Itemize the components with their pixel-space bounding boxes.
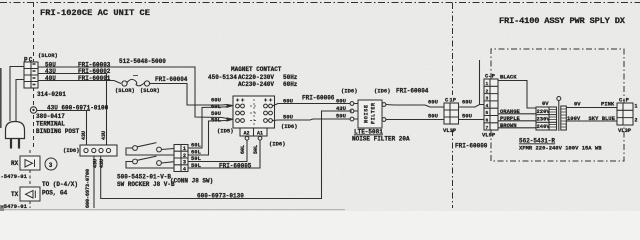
wire 60U filter to VL3P [386,105,444,108]
coil terminals A2 A1 [240,128,267,140]
transformer shield terminal [557,97,561,132]
svg-text:2: 2 [183,153,186,159]
svg-text:PINK: PINK [601,101,615,108]
wire 60U VL3P to CP [459,60,485,107]
svg-text:(SLOR): (SLOR) [140,87,160,94]
svg-text:FRI-60000: FRI-60000 [455,143,488,150]
noise filter LTE-5081 [354,100,386,128]
svg-text:NOISE: NOISE [364,105,370,123]
svg-text:50L: 50L [211,117,222,124]
svg-text:(ID6): (ID6) [281,123,298,130]
node 43U filter pin [350,109,354,113]
svg-text:XFMR 220-240V 100V 15A WB: XFMR 220-240V 100V 15A WB [519,145,602,152]
svg-text:60L: 60L [191,142,202,149]
svg-text:-5479-01: -5479-01 [1,203,28,210]
wire 60L pin2 up to contact [188,121,227,156]
svg-text:43U: 43U [99,159,105,168]
scan artifact bottom left [0,205,4,211]
switch rocker pole B [126,156,174,168]
connector CONN J8 SW [174,145,188,172]
svg-text:FRI-60005: FRI-60005 [219,163,252,170]
transformer secondary winding [561,106,567,130]
fuse link FRI-60004 [122,76,150,87]
svg-text:(SLOR): (SLOR) [115,87,135,94]
svg-text:50U: 50U [428,113,438,120]
svg-text:FRI-60004: FRI-60004 [396,88,429,95]
svg-text:AC220-230V: AC220-230V [238,74,274,81]
svg-text:43U 600-6971-0100: 43U 600-6971-0100 [47,105,109,112]
svg-text:4: 4 [486,103,489,109]
svg-text:562-5431-R: 562-5431-R [519,138,555,145]
connector P-C body [24,62,38,88]
svg-text:PURPLE: PURPLE [500,115,521,122]
svg-text:(CONN J8 SW): (CONN J8 SW) [170,178,213,185]
svg-text:7: 7 [486,125,489,131]
svg-text:(ID6): (ID6) [63,147,80,154]
svg-text:(ID6): (ID6) [341,88,358,95]
svg-text:3: 3 [183,160,186,166]
svg-text:FRI-60004: FRI-60004 [155,76,188,83]
svg-text:TERMINAL: TERMINAL [36,121,65,128]
svg-text:RX: RX [11,160,19,167]
svg-text:TO (D-4/X): TO (D-4/X) [42,181,78,188]
wire 43U row2 [38,74,107,146]
wire BLACK [498,81,536,109]
svg-text:512-5048-5000: 512-5048-5000 [119,58,166,65]
svg-text:(ID6): (ID6) [269,141,286,148]
wire PURPLE 230V [498,120,536,122]
svg-text:ORANGE: ORANGE [500,108,521,115]
svg-text:43U: 43U [45,68,56,75]
border top dash-dot [0,2,640,4]
svg-text:VL9P: VL9P [482,132,496,139]
svg-text:VL3P: VL3P [618,127,632,134]
svg-text:FILTER: FILTER [371,103,377,124]
svg-text:43U: 43U [336,105,346,112]
svg-text:BINDING POST: BINDING POST [36,128,80,135]
node TX opto [20,187,40,201]
svg-text:P C: P C [24,57,33,64]
svg-text:1: 1 [486,81,489,87]
svg-text:(ID5): (ID5) [217,128,234,135]
wire 43U down-left [93,156,95,208]
connector ID6 binding post [80,145,117,156]
wire terminal to 43U drop [37,111,90,146]
connector C-P 7pin VL9P [484,79,498,130]
svg-text:0V: 0V [542,100,549,107]
svg-text:C 1P: C 1P [445,97,457,104]
wire 0V PINK [566,107,617,109]
svg-text:AC230-240V: AC230-240V [238,81,274,88]
wire plug cord L [10,67,24,122]
wire after fuse to contact 60U [150,84,227,106]
svg-text:43U: 43U [93,159,99,168]
pin numbers C-P [486,81,489,131]
svg-text:SKY BLUE: SKY BLUE [589,115,616,122]
svg-text:60L: 60L [240,145,246,154]
svg-text:FRI-1020CE AC UNIT CE: FRI-1020CE AC UNIT CE [40,8,150,18]
svg-text:5: 5 [486,110,489,116]
svg-text:BROWN: BROWN [500,122,517,129]
svg-text:C-P: C-P [485,73,496,80]
transformer primary winding [536,107,557,130]
wire 60U row3 to fuse [38,81,121,84]
svg-text:1: 1 [635,104,638,110]
wire 100V SKY BLUE [566,120,617,122]
node RX opto [20,150,40,208]
svg-text:C-P: C-P [619,97,630,104]
crimp lugs left pair 2 [227,118,233,121]
svg-text:2: 2 [486,88,489,94]
wire 50U row1 [38,67,227,119]
svg-text:600-6973-0130: 600-6973-0130 [197,193,244,200]
svg-text:60Hz: 60Hz [283,81,298,88]
svg-text:POS, G4: POS, G4 [42,190,68,197]
svg-text:SW ROCKER J8 V-B: SW ROCKER J8 V-B [117,181,175,188]
connector C-P right VL3P [617,103,633,125]
svg-text:(ID6): (ID6) [374,88,391,95]
svg-text:50L: 50L [191,162,202,169]
pin numbers J8 [183,146,186,172]
connector C1P VL3P [444,103,459,124]
svg-text:230V: 230V [537,116,551,123]
svg-text:50L: 50L [253,145,259,154]
svg-text:60U: 60U [336,98,346,105]
svg-text:43U: 43U [81,131,87,140]
svg-text:50U: 50U [283,114,293,121]
svg-text:500-5452-01-V-B: 500-5452-01-V-B [117,174,171,181]
svg-text:0V: 0V [574,101,581,108]
svg-text:220V: 220V [537,108,551,115]
svg-text:43U: 43U [101,131,107,140]
scan artifact bottom line [0,209,345,210]
svg-text:50U: 50U [462,113,472,120]
svg-text:-5479-01: -5479-01 [1,173,28,180]
wire ORANGE 220V [498,113,536,115]
dashed box FRI-4100 [491,49,624,161]
svg-text:FRI-60001: FRI-60001 [78,75,111,82]
svg-text:FRI-60002: FRI-60002 [78,68,111,75]
svg-text:NOISE FILTER 20A: NOISE FILTER 20A [352,136,410,143]
svg-text:380-0417: 380-0417 [36,113,65,120]
svg-text:4: 4 [183,166,186,172]
svg-text:3: 3 [486,96,489,102]
svg-text:3: 3 [49,162,53,169]
svg-text:2: 2 [635,118,638,124]
svg-text:FRI-60006: FRI-60006 [302,95,335,102]
wire BROWN 240V [498,127,536,129]
svg-text:1: 1 [183,146,186,152]
svg-text:(SLOR): (SLOR) [38,52,58,59]
wire 50U contact to filter [272,117,354,121]
svg-text:600-6973-0700: 600-6973-0700 [85,169,91,208]
svg-text:BLACK: BLACK [500,74,517,81]
svg-text:TX: TX [11,191,19,198]
wire 50U VL3P to CP [459,119,485,121]
crimp lugs left pair 1 [227,105,233,108]
svg-text:6: 6 [486,118,489,124]
svg-text:A2: A2 [244,131,250,137]
svg-text:40U: 40U [45,75,56,82]
wire 50L pin4 to coil A1 [188,140,260,168]
svg-text:314-0201: 314-0201 [37,91,66,98]
terminal binding post symbol [30,107,36,113]
wire plug cord N [16,80,24,122]
svg-text:50U: 50U [336,113,346,120]
wire 60U contact to filter [272,102,354,106]
border left dashed [33,3,35,150]
svg-text:60U: 60U [462,99,472,106]
svg-text:100V: 100V [567,115,581,122]
svg-text:240V: 240V [537,123,551,130]
svg-text:50Hz: 50Hz [283,74,298,81]
wire 50U filter to VL3P [386,119,444,121]
svg-text:MAGNET CONTACT: MAGNET CONTACT [231,66,282,73]
svg-text:VL3P: VL3P [443,127,457,134]
svg-text:60U: 60U [428,99,438,106]
wire 60L pin1 up to contact [188,107,227,148]
AC plug [6,122,25,149]
switch rocker pole A [126,143,174,155]
svg-text:LTE-5081: LTE-5081 [354,129,383,136]
node circled 3 [45,158,57,170]
magnet contactor 450-5134 [233,96,275,128]
svg-text:A1: A1 [257,131,263,137]
svg-text:60U: 60U [283,98,293,105]
wire 43U bottom bus [101,111,352,199]
border mid vertical dash-dot [452,3,454,208]
svg-text:FRI-4100 ASSY PWR SPLY DX: FRI-4100 ASSY PWR SPLY DX [499,16,626,26]
wire 50L pin3 to coil A2 [188,140,247,162]
scan artifact left edge [0,68,2,128]
svg-text:450-5134: 450-5134 [208,74,237,81]
